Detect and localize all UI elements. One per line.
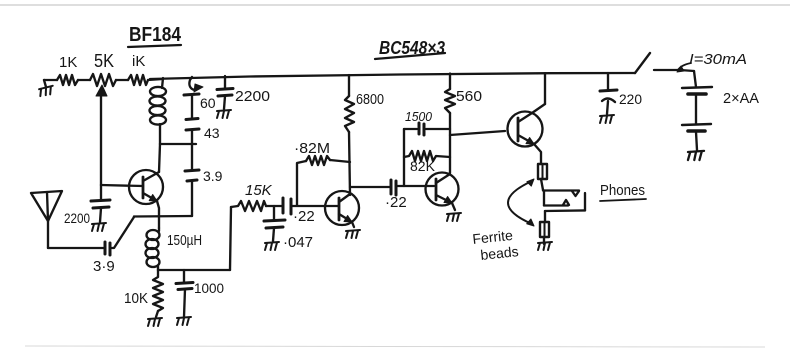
capacitor .047: [264, 220, 285, 221]
svg-text:150µH: 150µH: [167, 233, 202, 249]
transistor Q2 BC548: [325, 191, 359, 225]
svg-text:82K: 82K: [410, 158, 436, 174]
trimmer cap 60 arrow terminal: [189, 77, 196, 90]
resistor .82M feedback: [297, 161, 306, 205]
pot wiper arrow: [96, 85, 107, 96]
ground (2200 bypass): [217, 110, 231, 118]
capacitor 60: [184, 94, 199, 95]
wire cap 3.9 to emitter node: [110, 217, 134, 249]
main supply rail wire: [150, 73, 635, 79]
current arrow I=30mA: [678, 63, 691, 70]
riser to 15K: [230, 207, 231, 270]
wire: [78, 79, 90, 81]
svg-text:Phones: Phones: [600, 183, 645, 199]
potentiometer 5K: [90, 74, 116, 86]
capacitor .22 (2nd): [390, 180, 393, 194]
ground (.047): [265, 242, 279, 250]
wire rail to tuning coil: [162, 78, 163, 88]
wire Q4 emitter down: [534, 144, 541, 163]
inductor L2 150uH: [158, 228, 160, 231]
capacitor 1000: [183, 270, 185, 282]
svg-text:220: 220: [619, 91, 642, 107]
wire Q2 collector to cap .22 (2nd): [350, 186, 390, 188]
wire to battery: [694, 71, 696, 87]
ground (bias chain left): [44, 80, 46, 87]
wire Q1 emitter down: [157, 201, 159, 228]
node below L2 wire right: [158, 269, 230, 271]
pot wiper wire: [100, 96, 102, 185]
svg-text:1K: 1K: [59, 54, 77, 71]
feedback pair riser left: [403, 129, 405, 186]
emitter node wire: [134, 215, 192, 218]
ground (Q2 emitter): [346, 230, 360, 238]
wire antenna to cap 3.9: [48, 247, 104, 249]
switch blade: [635, 53, 650, 73]
svg-text:60: 60: [200, 95, 216, 111]
wire 6800 to Q2 collector: [349, 132, 350, 195]
faint scan line top: [0, 4, 790, 6]
capacitor 1500: [404, 128, 417, 130]
faint scan line bottom: [25, 346, 765, 347]
ground (220): [600, 115, 614, 123]
svg-text:3·9: 3·9: [93, 258, 115, 275]
capacitor 3.9 (antenna): [104, 242, 107, 254]
wire ground to R 1K: [44, 79, 57, 81]
resistor 6800: [345, 96, 354, 132]
wire 15K to cap .22: [266, 205, 283, 207]
svg-text:I=30mA: I=30mA: [689, 51, 747, 68]
svg-text:·22: ·22: [293, 208, 315, 225]
resistor 15K: [231, 201, 266, 211]
svg-text:560: 560: [456, 88, 482, 105]
antenna: [31, 191, 62, 221]
svg-text:·82M: ·82M: [294, 140, 330, 157]
wire to rail: [148, 79, 163, 80]
capacitor 43: [186, 129, 199, 130]
capacitor .22 (1st): [282, 198, 285, 213]
svg-text:3.9: 3.9: [203, 168, 223, 184]
wire rail to 560: [449, 74, 451, 90]
wire rail to 6800: [348, 75, 350, 96]
svg-text:6800: 6800: [356, 92, 384, 108]
svg-text:iK: iK: [132, 53, 145, 70]
ferrite bead 2: [540, 222, 549, 237]
transistor Q3 BC548: [426, 173, 459, 206]
svg-text:1500: 1500: [405, 109, 433, 124]
wire Q4 collector to rail: [544, 73, 546, 104]
svg-text:15K: 15K: [245, 182, 273, 199]
inductor L1 tuning coil: [150, 87, 166, 96]
ferrite bead 1: [538, 164, 547, 179]
transistor Q1 BF184: [129, 170, 163, 204]
resistor 1K (left): [57, 75, 78, 85]
wire 3.9 to emitter node: [191, 181, 193, 216]
base wire Q1: [101, 185, 143, 186]
svg-text:5K: 5K: [94, 51, 114, 71]
ground (Q3 emitter): [447, 213, 461, 221]
ground (bead 2): [543, 238, 545, 244]
ground (base bypass): [92, 223, 106, 231]
svg-text:43: 43: [204, 125, 220, 141]
svg-text:1000: 1000: [194, 280, 224, 296]
svg-text:BF184: BF184: [129, 24, 182, 46]
wire bead to jack: [541, 179, 543, 190]
battery 2xAA cell 1: [682, 87, 712, 88]
node J1 wire to cap chain: [160, 143, 196, 145]
wire down to .047: [273, 206, 275, 220]
wire .22 to Q3 base: [396, 185, 434, 187]
wire Q3 collector to Q4 base: [450, 131, 505, 135]
svg-text:2200: 2200: [235, 88, 270, 105]
wire rail to cap 2200: [224, 76, 226, 88]
wire: [116, 79, 128, 81]
ground (battery): [688, 151, 704, 160]
capacitor 2200 (base bypass): [100, 185, 102, 200]
capacitor 3.9 (chain): [185, 170, 199, 171]
svg-text:2200: 2200: [64, 211, 90, 226]
wire J1 down to Q1 collector: [159, 144, 160, 172]
wire 560 to Q3 collector: [449, 113, 451, 173]
resistor 1K (right): [128, 75, 148, 85]
battery cell 2: [682, 124, 711, 125]
ground (1000): [177, 317, 191, 325]
resistor 82K: [404, 151, 450, 161]
wire coil bottom to node J1: [159, 124, 161, 144]
ground (10K): [148, 318, 162, 326]
resistor 10K: [153, 270, 163, 311]
svg-text:·22: ·22: [385, 194, 407, 211]
svg-text:·047: ·047: [283, 234, 313, 251]
wire jack to bead 2: [544, 211, 546, 222]
resistor 560: [445, 89, 455, 113]
phone jack: [543, 189, 579, 191]
svg-text:10K: 10K: [124, 290, 148, 307]
wire .22 to Q2 base: [291, 205, 339, 207]
capacitor 2200 (rail bypass): [217, 89, 233, 90]
svg-text:2×AA: 2×AA: [723, 91, 759, 107]
transistor Q4 BC548 output: [508, 112, 543, 147]
switch contact wire: [654, 70, 694, 71]
arrow to ferrite beads (double-headed): [508, 181, 532, 224]
capacitor 220 electrolytic: [600, 90, 617, 91]
wire rail to 220: [607, 73, 609, 89]
